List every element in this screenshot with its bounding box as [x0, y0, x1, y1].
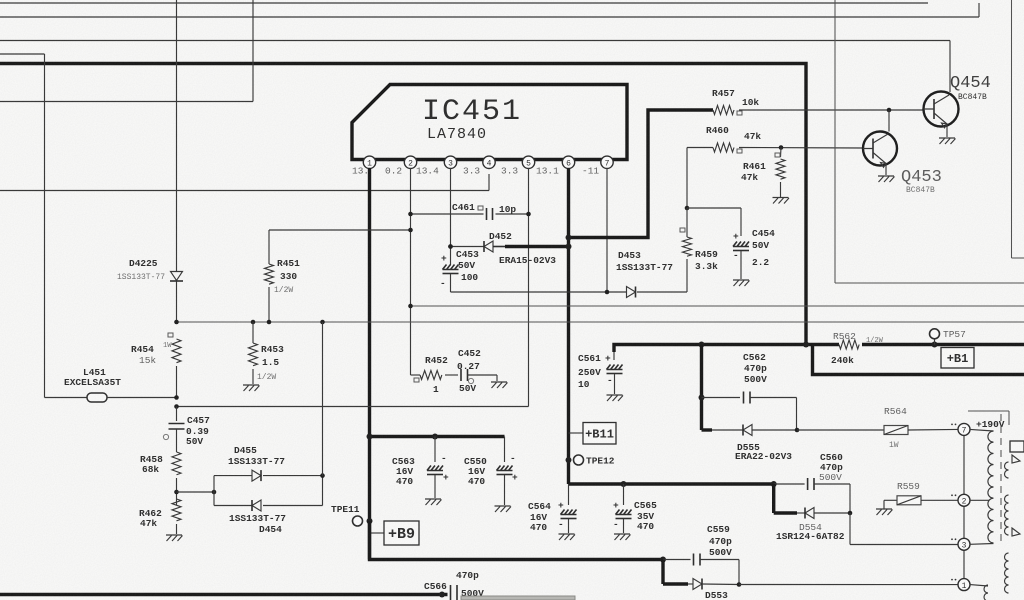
inductor L451 [45, 367, 179, 402]
diode D553 [663, 560, 741, 600]
wire pin7 [606, 168, 608, 292]
capacitor C452 [445, 348, 497, 394]
label Q453 [901, 168, 942, 187]
resistor R452 [414, 355, 448, 395]
wire R451 link [269, 228, 413, 233]
wire pin6 thick [567, 168, 570, 484]
wire rail pin2 net [408, 304, 1024, 309]
resistor R457 [712, 88, 759, 115]
wire vertical left [44, 54, 46, 398]
label BC847B [958, 93, 987, 102]
wire rail C-string [174, 404, 528, 409]
capacitor C457 [163, 407, 210, 453]
winding lower [970, 585, 988, 600]
label Q454 [950, 74, 991, 93]
ground R462 [166, 535, 183, 541]
resistor R462 [139, 499, 181, 534]
node +B11 [569, 423, 617, 445]
wire diode loop [177, 473, 325, 505]
wire R460 left [687, 147, 713, 149]
component partial bottom [461, 596, 575, 600]
wire to R564 [797, 429, 884, 431]
pin 4 IC451 [483, 156, 495, 169]
transistor Q454 [924, 92, 959, 138]
wire thick B1 rail [614, 342, 1024, 353]
pin 6 IC451 [562, 156, 574, 169]
label voltage 13.4 [416, 166, 439, 177]
wire R564 to pin7 [908, 428, 958, 431]
wire to pin3 [850, 513, 958, 545]
capacitor C461 [408, 202, 531, 220]
ground C452 [491, 375, 508, 388]
label voltage 13. [352, 166, 369, 177]
winding secondary partial [1005, 441, 1024, 593]
diode D452 [448, 231, 571, 266]
wire R457 to Q454 base [739, 108, 924, 113]
testpoint TPE11 [331, 504, 373, 526]
ground Q454 [939, 138, 956, 144]
wire thick C564 rail [569, 481, 777, 487]
wire rail short [0, 0, 253, 102]
diode D454 [229, 500, 286, 535]
wire pin5 [528, 168, 530, 407]
wire thick bus top [0, 64, 806, 345]
label IC451 [422, 95, 522, 129]
wire thick elbow [566, 110, 714, 241]
ground C565 [614, 534, 631, 540]
wire C454 link [687, 208, 741, 236]
pin 7 transformer [951, 423, 970, 435]
ground C550 [495, 506, 512, 512]
resistor R458 [140, 452, 181, 505]
box transformer top [968, 411, 1009, 425]
label voltage -11 [582, 166, 599, 177]
wire R460 drop [685, 148, 690, 211]
capacitor C559 [663, 524, 739, 585]
diode D554 [774, 484, 853, 542]
pin 1 IC451 [363, 156, 375, 169]
ground R461 [773, 198, 790, 204]
wire pin2 [410, 168, 412, 375]
resistor R564 fusible [884, 406, 908, 450]
wire loop to rail [322, 322, 324, 476]
resistor R559 [876, 481, 958, 515]
wire pin1 thick [368, 168, 371, 560]
wire vertical D4225 net [176, 0, 178, 322]
wire top rail 2 [0, 3, 979, 17]
wire to pin1 [739, 584, 958, 586]
wire C461 link [411, 213, 529, 215]
testpoint TPE12 [566, 455, 615, 467]
wire pin3 [450, 168, 452, 265]
pin 3 IC451 [444, 156, 456, 169]
pin 2 transformer [951, 494, 970, 506]
capacitor C562 [702, 352, 797, 404]
pin 5 IC451 [522, 156, 534, 169]
wire stub left [0, 53, 45, 55]
pin 2 IC451 [404, 156, 416, 169]
ground C561 [607, 395, 624, 401]
capacitor C561 [578, 352, 623, 394]
resistor R451 [265, 230, 301, 322]
label voltage 3.3 [463, 166, 480, 177]
diode D453 [616, 250, 673, 298]
capacitor C550 [464, 437, 518, 506]
node +B1 [941, 348, 974, 369]
capacitor C560 [774, 452, 850, 513]
testpoint TP57 [930, 329, 966, 345]
wire thick C563 rail [367, 434, 505, 440]
wire D453 net [451, 290, 688, 295]
resistor R453 [249, 322, 285, 384]
box right edge [1012, 0, 1024, 258]
core [1000, 414, 1002, 545]
pin 3 transformer [951, 538, 970, 550]
op-amp IC451 outline [352, 85, 627, 160]
wire R452 link [411, 374, 421, 376]
wire thick C562 drop [699, 345, 705, 431]
winding upper [970, 429, 994, 544]
diode D555 [702, 398, 800, 463]
resistor R454 [131, 333, 181, 398]
box right area [835, 0, 1024, 283]
node +B9 [370, 521, 420, 545]
wire R460 to Q453 base [739, 145, 863, 150]
wire to IC pin4 [0, 174, 489, 191]
resistor R461 [741, 148, 785, 198]
capacitor C454 [733, 228, 775, 279]
label voltage 13.1 [536, 166, 559, 177]
label +190V [976, 419, 1005, 430]
wire thick B9 rail [370, 521, 667, 563]
capacitor C564 [528, 484, 577, 533]
resistor R459 [680, 208, 718, 292]
ground C564 [559, 534, 576, 540]
capacitor C453 [440, 244, 479, 292]
transistor Q453 [863, 132, 897, 176]
capacitor C563 [392, 437, 449, 499]
capacitor C566 [424, 570, 484, 600]
transformer primary pins [963, 429, 965, 584]
wire Q453 collector [888, 110, 890, 132]
resistor R562 [831, 331, 884, 366]
ground R453 [243, 385, 260, 391]
label voltage 3.3 [501, 166, 518, 177]
diode D455 [228, 445, 285, 481]
pin 7 IC451 [601, 156, 613, 169]
wire rail long [174, 320, 1024, 325]
wire thick B1 lower rail [813, 345, 1024, 375]
ground C563 [425, 499, 442, 505]
ground Q453 [878, 176, 895, 182]
diode D4225 [117, 258, 183, 282]
wire rail to Q454 collector [0, 41, 950, 93]
label LA7840 [427, 126, 487, 143]
label voltage 0.2 [385, 166, 402, 177]
wire top rail 1 [0, 2, 928, 4]
pin 1 transformer [951, 579, 970, 591]
wire thick bottom [0, 592, 448, 598]
capacitor C565 [613, 484, 657, 533]
label BC847B gray [906, 186, 935, 195]
resistor R460 [706, 125, 761, 153]
ground C454 [733, 280, 750, 286]
